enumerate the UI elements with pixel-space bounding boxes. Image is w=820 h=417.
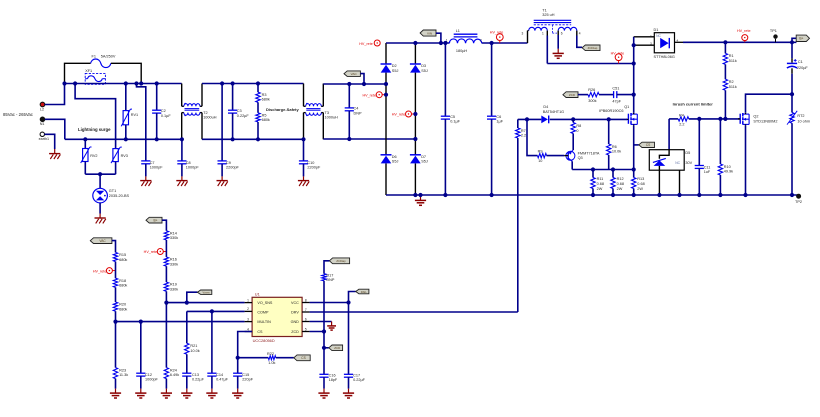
svg-text:2.2: 2.2	[679, 123, 684, 127]
svg-text:49.9k: 49.9k	[724, 170, 733, 174]
resistor R23	[115, 322, 117, 368]
svg-text:C12: C12	[145, 373, 152, 377]
resistor R11	[592, 170, 594, 178]
resistor R4	[678, 117, 689, 121]
net tag Vosns	[187, 292, 198, 302]
svg-text:C51: C51	[612, 87, 619, 91]
svg-text:C2: C2	[161, 109, 166, 113]
svg-text:Q2: Q2	[753, 114, 758, 118]
svg-text:3: 3	[247, 317, 249, 321]
wire L2 to bus	[45, 84, 65, 105]
svg-text:2W: 2W	[617, 187, 623, 191]
op-amp U1 UCC28056D	[252, 297, 302, 336]
svg-text:S5J: S5J	[392, 69, 399, 73]
resistor R7	[516, 128, 520, 138]
diode D2	[381, 63, 392, 65]
svg-text:300k: 300k	[588, 99, 596, 103]
svg-text:D3: D3	[421, 64, 426, 68]
resistor R1	[724, 42, 726, 53]
svg-text:Q1: Q1	[624, 105, 629, 109]
svg-text:ZCD: ZCD	[334, 346, 340, 350]
svg-text:2W: 2W	[597, 187, 603, 191]
svg-text:T1: T1	[542, 8, 546, 12]
svg-text:GT1: GT1	[109, 189, 116, 193]
svg-text:R16: R16	[170, 258, 177, 262]
svg-text:FMMT718TA: FMMT718TA	[578, 151, 600, 155]
svg-text:T2: T2	[203, 111, 207, 115]
wire T1 pin1 to switch node	[546, 36, 548, 64]
svg-text:680k: 680k	[262, 118, 270, 122]
svg-text:330k: 330k	[170, 262, 178, 266]
svg-text:7: 7	[305, 308, 307, 312]
transformer T2	[181, 84, 183, 107]
wire GND pin	[310, 321, 332, 323]
transformer T3	[303, 84, 305, 107]
svg-text:BAT54HT1G: BAT54HT1G	[543, 110, 564, 114]
transistor Q1	[627, 114, 629, 124]
svg-text:D4: D4	[543, 105, 548, 109]
svg-text:2035-20-BS: 2035-20-BS	[109, 194, 130, 198]
svg-text:HV_rete: HV_rete	[392, 113, 406, 117]
wire Q2 source	[745, 125, 747, 195]
wire earth1	[45, 134, 55, 149]
capacitor C13	[182, 372, 191, 374]
wire neutral bus left	[65, 138, 182, 140]
svg-text:85Vac - 265Vac: 85Vac - 265Vac	[3, 112, 34, 117]
wire neutral bus mid	[202, 138, 304, 140]
capacitor C1	[791, 42, 793, 58]
transistor Q3	[566, 151, 575, 160]
wire Q3 collector	[571, 161, 573, 169]
svg-text:180µH: 180µH	[456, 49, 468, 53]
svg-text:U1: U1	[255, 291, 260, 296]
wire Q1 source	[633, 125, 635, 169]
svg-text:R17: R17	[326, 273, 333, 277]
bar ground under C15	[237, 389, 239, 394]
svg-text:0.22µF: 0.22µF	[237, 114, 250, 118]
svg-text:DNP: DNP	[354, 112, 362, 116]
capacitor C15	[237, 358, 239, 374]
svg-text:R10: R10	[724, 165, 731, 169]
resistor R9	[527, 119, 538, 155]
svg-text:DNP: DNP	[326, 278, 334, 282]
svg-text:R18: R18	[119, 279, 126, 283]
svg-text:TP2: TP2	[795, 200, 802, 204]
test point TP2	[796, 194, 801, 199]
svg-text:TP1: TP1	[770, 29, 777, 33]
svg-text:CS: CS	[646, 143, 650, 147]
svg-text:DRV: DRV	[291, 311, 299, 315]
svg-text:4: 4	[579, 32, 581, 36]
svg-text:D1: D1	[654, 28, 659, 32]
svg-text:220pF: 220pF	[242, 378, 253, 382]
svg-text:Inrush current limiter: Inrush current limiter	[673, 102, 714, 107]
svg-text:HV_rete: HV_rete	[144, 250, 158, 254]
capacitor C2	[156, 84, 158, 111]
wire Q2 drain	[746, 94, 793, 113]
svg-text:STTH8L06G: STTH8L06G	[654, 55, 675, 59]
net tag ZCD at C16	[324, 347, 329, 349]
resistor R5	[257, 102, 259, 113]
varistor RV2	[84, 139, 86, 148]
svg-text:COMP: COMP	[257, 311, 269, 315]
svg-text:3: 3	[522, 32, 524, 36]
svg-text:NC: NC	[656, 34, 661, 38]
net tag ZCDtap at R17	[329, 258, 349, 264]
svg-text:CS: CS	[257, 330, 263, 334]
svg-text:R15: R15	[119, 253, 126, 257]
svg-text:511k: 511k	[729, 85, 737, 89]
svg-text:C3: C3	[237, 109, 242, 113]
wire Q1 drain	[633, 64, 635, 113]
svg-text:D7: D7	[421, 155, 426, 159]
bar ground under C14	[211, 389, 213, 394]
svg-text:C4: C4	[354, 107, 359, 111]
transistor Q2	[739, 114, 741, 124]
inductor L1	[454, 33, 478, 35]
bar ground under C16	[323, 389, 325, 394]
transformer T1	[534, 19, 572, 21]
svg-text:2.2: 2.2	[521, 134, 526, 138]
svg-text:C10: C10	[307, 161, 314, 165]
svg-text:HV_rete: HV_rete	[93, 269, 107, 273]
net tag VAC	[344, 71, 360, 77]
svg-text:R6: R6	[612, 145, 617, 149]
resistor R19	[165, 266, 167, 282]
svg-text:ZCD: ZCD	[291, 330, 299, 334]
svg-text:0.1µF: 0.1µF	[450, 120, 460, 124]
svg-text:C14: C14	[216, 373, 223, 377]
resistor R16	[165, 240, 167, 257]
wire VCC	[310, 302, 349, 304]
svg-text:R26: R26	[588, 88, 595, 92]
svg-text:325 uH: 325 uH	[542, 13, 555, 17]
svg-text:0.68: 0.68	[617, 182, 624, 186]
svg-text:R8: R8	[576, 124, 581, 128]
svg-text:1000pF: 1000pF	[145, 378, 159, 382]
svg-text:0.1µF: 0.1µF	[161, 114, 171, 118]
capacitor C51	[599, 94, 614, 96]
net tag VAC sense	[90, 238, 112, 244]
svg-text:R3: R3	[262, 93, 267, 97]
svg-text:R4: R4	[679, 113, 684, 117]
wire live bus mid	[202, 83, 304, 85]
svg-text:C13: C13	[192, 373, 199, 377]
wire DRV	[310, 311, 518, 313]
wire output rail	[683, 41, 796, 43]
svg-text:C1: C1	[798, 60, 803, 64]
svg-text:6: 6	[305, 317, 307, 321]
svg-text:GND: GND	[291, 320, 300, 324]
capacitor C5	[444, 43, 446, 116]
net tag ZCDtap	[582, 45, 600, 51]
capacitor C6	[491, 43, 493, 116]
wire ZCD pin	[310, 332, 324, 348]
svg-text:R13: R13	[637, 177, 644, 181]
terminal N1	[40, 117, 45, 122]
svg-text:R7: R7	[521, 129, 526, 133]
net tag B+ sense	[146, 217, 162, 223]
svg-text:VO_SNS: VO_SNS	[257, 301, 273, 305]
svg-text:1000pF: 1000pF	[186, 166, 200, 170]
capacitor C12	[140, 322, 142, 374]
svg-text:HV_rete: HV_rete	[359, 42, 373, 46]
resistor R3	[257, 84, 259, 93]
svg-text:N1: N1	[40, 122, 45, 126]
svg-text:680k: 680k	[119, 258, 127, 262]
svg-text:R24: R24	[170, 368, 177, 372]
bar ground at U1 GND	[331, 322, 333, 326]
svg-text:1.0k: 1.0k	[268, 361, 275, 365]
earth ground under C9	[221, 176, 223, 180]
resistor R18	[115, 262, 117, 279]
svg-text:4: 4	[247, 327, 249, 331]
svg-text:HV_rete: HV_rete	[737, 29, 751, 33]
svg-text:B+: B+	[154, 218, 158, 222]
svg-text:1000uH: 1000uH	[325, 116, 339, 120]
wire rectified rail	[386, 42, 449, 44]
diode D6	[381, 154, 392, 156]
svg-text:6.49k: 6.49k	[170, 373, 179, 377]
capacitor C16	[319, 373, 328, 375]
svg-text:R1: R1	[729, 54, 734, 58]
svg-text:XF1: XF1	[85, 69, 92, 73]
svg-text:0.47µF: 0.47µF	[216, 378, 229, 382]
svg-text:1uF: 1uF	[704, 170, 711, 174]
svg-text:8: 8	[305, 298, 307, 302]
svg-text:D5: D5	[685, 151, 690, 155]
svg-text:RAIL: RAIL	[361, 290, 367, 294]
resistor R22	[268, 356, 276, 360]
thermistor RT2	[791, 94, 793, 112]
bridge right column	[414, 43, 416, 64]
fuse clip XF1	[85, 73, 105, 84]
svg-text:511k: 511k	[729, 59, 737, 63]
svg-text:RV1: RV1	[131, 113, 138, 117]
svg-text:C9: C9	[226, 161, 231, 165]
net tag CS at R22	[294, 355, 310, 361]
svg-text:R11: R11	[597, 177, 604, 181]
terminal earth1	[40, 132, 44, 136]
svg-text:680k: 680k	[119, 284, 127, 288]
wire DRV riser	[517, 138, 519, 312]
net tag VIN	[420, 30, 436, 36]
net tag CS at Q1	[634, 144, 639, 146]
svg-text:C5: C5	[450, 115, 455, 119]
resistor R24	[165, 303, 167, 368]
svg-text:earth1: earth1	[39, 137, 49, 141]
wire RV junction	[85, 173, 115, 175]
svg-text:Lightning surge: Lightning surge	[78, 127, 111, 132]
capacitor C8	[181, 139, 183, 161]
svg-text:R23: R23	[119, 368, 126, 372]
svg-text:C16: C16	[329, 373, 336, 377]
earth ground at earth1	[54, 149, 56, 154]
svg-text:6: 6	[561, 32, 563, 36]
resistor R8	[572, 119, 574, 122]
svg-text:1: 1	[247, 298, 249, 302]
svg-text:RT2: RT2	[797, 114, 804, 118]
varistor RV3	[113, 149, 118, 162]
svg-text:0: 0	[576, 129, 578, 133]
wire MULTIN	[116, 321, 245, 323]
bar ground under T1 pin6	[557, 49, 559, 54]
svg-text:R9: R9	[538, 149, 543, 153]
net tag B+ output	[792, 38, 796, 42]
resistor R17	[322, 274, 326, 281]
wire T1 pin6 to ground	[557, 35, 559, 49]
svg-text:RV2: RV2	[90, 154, 97, 158]
wire inrush gate	[669, 118, 678, 120]
svg-text:C7: C7	[150, 161, 155, 165]
svg-text:B+: B+	[799, 37, 803, 41]
svg-text:1000uH: 1000uH	[203, 116, 217, 120]
svg-text:HV_rete: HV_rete	[362, 93, 376, 97]
bar ground under R23	[115, 389, 117, 394]
junction dots	[62, 81, 66, 85]
svg-text:L1: L1	[456, 29, 460, 33]
wire gate drive	[518, 118, 542, 120]
bar ground under C12	[140, 389, 142, 394]
diode D1	[634, 36, 655, 38]
fuse F1	[65, 63, 91, 83]
svg-text:220µF: 220µF	[797, 66, 809, 70]
bar ground under R24	[165, 389, 167, 394]
svg-text:R5: R5	[262, 113, 267, 117]
svg-text:ZCDtap: ZCDtap	[336, 259, 346, 263]
diode D7	[410, 154, 421, 156]
capacitor C17	[348, 303, 350, 375]
svg-text:D2: D2	[392, 64, 397, 68]
svg-text:C6: C6	[496, 115, 501, 119]
bar ground under C13	[186, 389, 188, 394]
svg-text:2: 2	[480, 39, 482, 43]
resistor R15	[113, 252, 117, 261]
wire CS pin	[238, 332, 252, 358]
capacitor C11	[698, 119, 700, 166]
svg-text:R20: R20	[119, 303, 126, 307]
svg-text:R2: R2	[729, 80, 734, 84]
earth ground under GT1	[99, 214, 101, 219]
resistor R13	[633, 170, 635, 178]
svg-text:T3: T3	[325, 111, 329, 115]
svg-text:S5J: S5J	[421, 160, 428, 164]
svg-text:IPB60R190C6: IPB60R190C6	[599, 109, 623, 113]
svg-text:R19: R19	[170, 283, 177, 287]
varistor RV1	[125, 84, 127, 111]
svg-text:S5J: S5J	[421, 69, 428, 73]
svg-text:18pF: 18pF	[329, 378, 338, 382]
capacitor C9	[221, 84, 223, 161]
wire live bus left	[65, 83, 182, 85]
capacitor C4	[348, 84, 350, 108]
svg-text:L2: L2	[40, 108, 44, 112]
wire COMP	[187, 310, 245, 312]
capacitor C10	[303, 139, 305, 161]
earth ground under C7	[145, 176, 147, 180]
svg-text:10.0k: 10.0k	[190, 349, 199, 353]
svg-text:Q3: Q3	[578, 156, 583, 160]
svg-text:5A/250V: 5A/250V	[101, 55, 116, 59]
resistor R10	[719, 119, 721, 164]
svg-text:0.68: 0.68	[637, 182, 644, 186]
svg-text:VIN: VIN	[427, 31, 432, 35]
svg-text:10.0k: 10.0k	[612, 150, 621, 154]
svg-text:2W: 2W	[637, 187, 643, 191]
svg-text:ZCDtap: ZCDtap	[588, 46, 598, 50]
svg-text:R14: R14	[170, 231, 177, 235]
bar ground at bridge	[420, 195, 422, 200]
capacitor C3	[232, 84, 234, 111]
svg-text:47pF: 47pF	[612, 99, 621, 103]
gas tube GT1	[93, 188, 108, 203]
svg-text:2200pF: 2200pF	[307, 166, 321, 170]
net tag ZCD at R26	[563, 92, 578, 98]
wire neutral bus right	[323, 138, 415, 140]
svg-text:C8: C8	[186, 161, 191, 165]
svg-text:VAC: VAC	[351, 72, 358, 76]
svg-text:Vosns: Vosns	[203, 290, 211, 294]
svg-text:330k: 330k	[170, 236, 178, 240]
bar ground under C17	[348, 389, 350, 394]
svg-text:10 ohm: 10 ohm	[797, 119, 810, 123]
svg-text:C15: C15	[242, 373, 249, 377]
svg-text:STD13N60M2: STD13N60M2	[753, 120, 777, 124]
svg-text:330k: 330k	[170, 288, 178, 292]
svg-text:5: 5	[305, 327, 307, 331]
earth ground under C8	[181, 176, 183, 180]
resistor R21	[186, 311, 188, 343]
svg-text:S5J: S5J	[392, 160, 399, 164]
wire lightning-surge jog	[75, 84, 116, 149]
wire live bus right	[323, 83, 386, 85]
diode D3	[410, 63, 421, 65]
svg-text:NC: NC	[675, 161, 680, 165]
capacitor C14	[211, 311, 213, 373]
bridge left column	[385, 43, 387, 64]
resistor R14	[164, 231, 168, 240]
net tag VCC rail	[356, 289, 369, 294]
terminal L2	[40, 102, 45, 107]
wire T1 pin4 to tag	[577, 36, 582, 48]
svg-text:VCC: VCC	[291, 301, 299, 305]
svg-text:ZCD: ZCD	[569, 93, 576, 97]
svg-text:1µF: 1µF	[496, 120, 503, 124]
resistor R2	[724, 64, 726, 79]
svg-text:0.68: 0.68	[597, 182, 604, 186]
svg-text:680k: 680k	[119, 307, 127, 311]
svg-text:1: 1	[542, 32, 544, 36]
svg-text:R22: R22	[267, 352, 274, 356]
resistor R26	[588, 92, 599, 96]
svg-text:C17: C17	[353, 373, 360, 377]
svg-text:2200pF: 2200pF	[226, 166, 240, 170]
svg-text:F1: F1	[92, 55, 96, 59]
svg-text:2: 2	[247, 307, 249, 311]
resistor R6	[608, 119, 610, 144]
capacitor C7	[137, 84, 146, 161]
svg-text:1000pF: 1000pF	[150, 166, 164, 170]
svg-text:RV3: RV3	[121, 154, 128, 158]
diode D4	[541, 116, 548, 124]
resistor R12	[612, 170, 614, 178]
svg-text:MULTIN: MULTIN	[257, 320, 271, 324]
svg-text:680k: 680k	[262, 98, 270, 102]
wire N1 to bus	[45, 119, 65, 139]
svg-text:R12: R12	[617, 177, 624, 181]
wire bottom rail	[386, 194, 799, 196]
svg-text:R21: R21	[190, 344, 197, 348]
